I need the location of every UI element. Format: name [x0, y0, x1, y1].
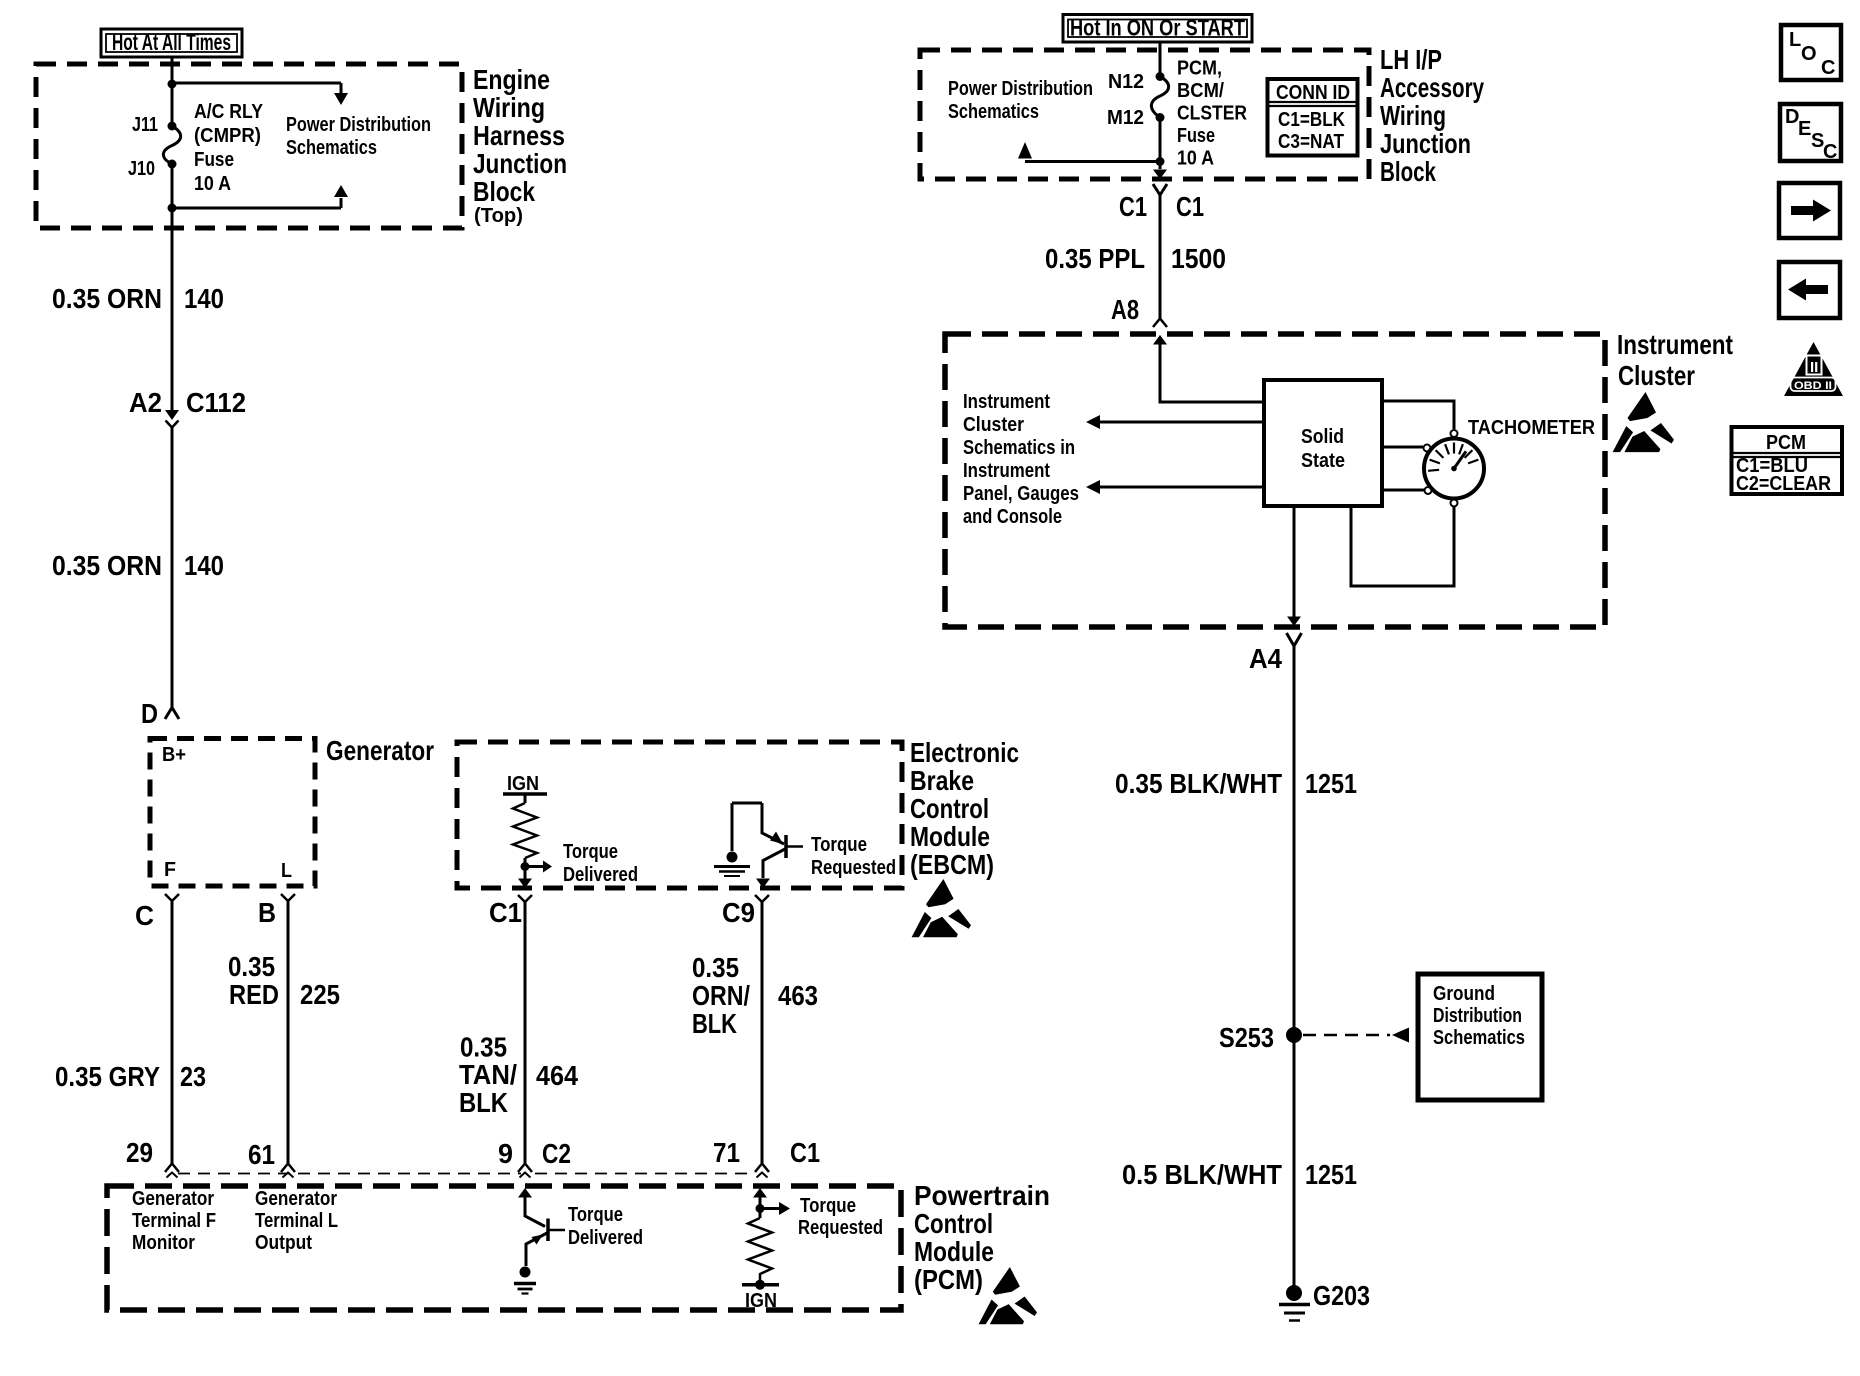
svg-text:Schematics: Schematics	[286, 137, 377, 159]
svg-text:Schematics in: Schematics in	[963, 437, 1075, 459]
svg-text:1251: 1251	[1305, 1159, 1357, 1190]
nav icon DESC box	[1780, 104, 1841, 161]
svg-text:Terminal F: Terminal F	[132, 1210, 216, 1232]
svg-text:(CMPR): (CMPR)	[194, 125, 261, 147]
svg-text:0.35 BLK/WHT: 0.35 BLK/WHT	[1115, 768, 1282, 799]
node: torque delivered junction	[521, 862, 530, 871]
wire: solid state output to A4	[1293, 506, 1296, 617]
svg-text:Block: Block	[1380, 156, 1436, 187]
wire: solid state to tachometer lower-left	[1382, 489, 1424, 492]
svg-text:IGN: IGN	[745, 1290, 777, 1312]
svg-text:A2: A2	[129, 387, 162, 418]
wire: A4 to S253 (0.35 BLK/WHT 1251)	[1293, 646, 1296, 1028]
svg-text:Output: Output	[255, 1232, 312, 1254]
svg-text:Terminal L: Terminal L	[255, 1210, 338, 1232]
LH I/P Accessory Wiring Junction Block dashed box	[920, 50, 1369, 179]
tachometer gauge M1	[1424, 439, 1484, 499]
svg-text:Generator: Generator	[255, 1188, 337, 1210]
svg-text:Control: Control	[910, 793, 989, 824]
svg-text:C3=NAT: C3=NAT	[1278, 131, 1344, 153]
resistor R2 (PCM torque requested)	[753, 1188, 767, 1198]
wire: solid state to tachometer top	[1382, 401, 1454, 429]
svg-text:D: D	[141, 698, 158, 729]
svg-text:71: 71	[713, 1137, 740, 1168]
svg-text:Ground: Ground	[1433, 983, 1495, 1005]
terminal 61 connector at PCM	[281, 1164, 295, 1173]
connector A4 below cluster	[1287, 633, 1302, 646]
svg-text:Module: Module	[914, 1236, 994, 1267]
svg-text:Junction: Junction	[1380, 128, 1471, 159]
svg-text:Torque: Torque	[568, 1204, 623, 1226]
svg-text:C1=BLK: C1=BLK	[1278, 109, 1345, 131]
solid state box U1	[1264, 380, 1382, 506]
nav icon right arrow box	[1779, 183, 1840, 238]
arrow: to instrument cluster schematics (lower)	[1099, 486, 1264, 489]
svg-text:E: E	[1798, 118, 1811, 140]
svg-text:Cluster: Cluster	[963, 414, 1024, 436]
svg-text:0.35 PPL: 0.35 PPL	[1045, 243, 1145, 274]
fuse PCM/BCM/CLSTER 10A element	[1151, 77, 1168, 118]
label box "Hot In ON Or START"	[1063, 15, 1252, 43]
svg-text:Wiring: Wiring	[1380, 100, 1446, 131]
svg-text:Solid: Solid	[1301, 426, 1344, 448]
wire: ignition feed into LH junction block	[1159, 42, 1162, 76]
svg-text:Instrument: Instrument	[963, 460, 1050, 482]
connector C1 at EBCM	[518, 895, 532, 902]
svg-text:29: 29	[126, 1137, 153, 1168]
svg-text:Torque: Torque	[811, 834, 867, 856]
svg-text:Power Distribution: Power Distribution	[286, 114, 431, 136]
svg-text:Requested: Requested	[798, 1217, 883, 1239]
generator dashed box	[150, 739, 315, 887]
svg-text:463: 463	[778, 980, 818, 1011]
PCM dashed box	[107, 1186, 901, 1310]
connector B at generator L	[281, 894, 295, 901]
svg-text:Generator: Generator	[326, 735, 434, 766]
ground (EBCM)	[714, 865, 750, 868]
OBD II triangle icon	[1784, 342, 1843, 396]
svg-text:140: 140	[184, 283, 224, 314]
connector C1 C1 inline below LH block	[1153, 170, 1167, 180]
svg-text:PCM: PCM	[1766, 432, 1806, 454]
pin circle tach top	[1451, 430, 1458, 437]
svg-text:Brake: Brake	[910, 765, 974, 796]
node J11	[168, 122, 177, 131]
label box "Hot At All Times"	[101, 29, 242, 57]
svg-text:0.35: 0.35	[460, 1032, 507, 1063]
svg-text:Wiring: Wiring	[473, 92, 545, 123]
svg-text:Cluster: Cluster	[1618, 360, 1695, 391]
svg-text:Schematics: Schematics	[948, 101, 1039, 123]
svg-text:CLSTER: CLSTER	[1177, 103, 1247, 125]
svg-text:B: B	[258, 897, 276, 928]
svg-text:Delivered: Delivered	[563, 864, 638, 886]
svg-text:Powertrain: Powertrain	[914, 1180, 1050, 1211]
svg-text:C1: C1	[489, 897, 522, 928]
svg-text:BLK: BLK	[692, 1008, 737, 1039]
node: junction dot top branch	[168, 80, 177, 89]
svg-text:140: 140	[184, 550, 224, 581]
connector C at generator F	[165, 894, 179, 901]
svg-text:0.35 ORN: 0.35 ORN	[52, 550, 162, 581]
svg-text:Harness: Harness	[473, 120, 565, 151]
wire: S253 to G203 (0.5 BLK/WHT 1251)	[1293, 1042, 1296, 1286]
svg-text:(PCM): (PCM)	[914, 1264, 983, 1295]
wire: branch to Power Distribution Schematics (left arrow)	[1025, 160, 1160, 163]
wire: branch to Power Distribution Schematics (top arrow)	[172, 83, 341, 93]
ESD symbol (instrument cluster)	[1613, 392, 1674, 452]
svg-text:C1: C1	[1119, 191, 1147, 222]
svg-text:TACHOMETER: TACHOMETER	[1468, 417, 1596, 439]
svg-text:10 A: 10 A	[1177, 148, 1214, 170]
svg-text:A8: A8	[1111, 294, 1139, 325]
svg-text:Torque: Torque	[563, 841, 618, 863]
needle	[1454, 451, 1466, 468]
svg-text:Engine: Engine	[473, 64, 550, 95]
svg-text:C9: C9	[722, 897, 755, 928]
connector C112 (A2) inline	[165, 410, 179, 420]
svg-text:RED: RED	[229, 979, 279, 1010]
terminal 9 C2 connector at PCM	[518, 1164, 532, 1173]
PCM connector ID table	[1732, 427, 1843, 494]
nav icon LOC box	[1781, 25, 1841, 80]
svg-text:B+: B+	[162, 744, 186, 766]
dashed reference wire to ground distribution	[1303, 1034, 1390, 1037]
svg-text:225: 225	[300, 979, 340, 1010]
svg-text:BLK: BLK	[459, 1087, 508, 1118]
svg-text:Torque: Torque	[800, 1195, 856, 1217]
Instrument Cluster dashed box	[945, 334, 1605, 627]
transistor Q2 (PCM torque delivered)	[518, 1188, 532, 1198]
svg-text:Hot At All Times: Hot At All Times	[112, 29, 231, 55]
svg-text:G203: G203	[1313, 1280, 1370, 1311]
wire: solid state to tachometer left	[1382, 446, 1423, 449]
wire below resistor	[524, 858, 527, 879]
svg-text:464: 464	[536, 1060, 578, 1091]
svg-text:LH I/P: LH I/P	[1380, 44, 1442, 75]
wire: EBCM C9 to PCM 71 (0.35 ORN/BLK 463)	[761, 902, 764, 1163]
svg-text:Fuse: Fuse	[194, 149, 234, 171]
wire: fuse output to C1	[1159, 118, 1162, 170]
wire: fuse output down through box	[171, 164, 174, 411]
svg-text:Hot In ON Or START: Hot In ON Or START	[1070, 15, 1245, 41]
pin circle tach bottom	[1451, 500, 1458, 507]
svg-text:Distribution: Distribution	[1433, 1005, 1522, 1027]
svg-text:1251: 1251	[1305, 768, 1357, 799]
svg-text:Accessory: Accessory	[1380, 72, 1484, 103]
wire: generator L to PCM 61 (0.35 RED 225)	[287, 901, 290, 1163]
svg-text:C: C	[1823, 141, 1837, 163]
wire: generator F to PCM 29 (0.35 GRY 23)	[171, 901, 174, 1163]
svg-text:F: F	[164, 859, 176, 881]
EBCM dashed box	[457, 742, 902, 888]
svg-text:C: C	[135, 900, 154, 931]
svg-text:9: 9	[498, 1138, 513, 1169]
transistor Q1 (EBCM torque requested)	[732, 803, 762, 851]
fuse A/C RLY (CMPR) 10A element	[163, 126, 180, 164]
ESD symbol (PCM)	[979, 1267, 1037, 1324]
svg-text:Delivered: Delivered	[568, 1227, 643, 1249]
svg-text:C2: C2	[542, 1138, 571, 1169]
svg-text:23: 23	[180, 1061, 206, 1092]
svg-text:0.35: 0.35	[692, 952, 739, 983]
svg-text:O: O	[1801, 43, 1817, 65]
connector strip dashed line (PCM C2/C1)	[178, 1173, 755, 1175]
svg-text:ORN/: ORN/	[692, 980, 750, 1011]
Ground Distribution Schematics box	[1418, 974, 1542, 1100]
svg-text:A/C RLY: A/C RLY	[194, 101, 264, 123]
pin circle tach lower-left	[1425, 487, 1432, 494]
svg-text:BCM/: BCM/	[1177, 80, 1224, 102]
svg-text:S253: S253	[1219, 1022, 1274, 1053]
svg-text:Monitor: Monitor	[132, 1232, 195, 1254]
arrow: to instrument cluster schematics (upper)	[1099, 421, 1264, 424]
pin circle tach left upper	[1424, 445, 1431, 452]
resistor R1 (EBCM pull-up)	[513, 803, 537, 858]
wire: C1 to A8 (0.35 PPL 1500)	[1159, 195, 1162, 319]
svg-text:IGN: IGN	[507, 773, 539, 795]
splice S253	[1286, 1027, 1302, 1043]
svg-text:A4: A4	[1249, 643, 1282, 674]
nav icon left arrow box	[1779, 262, 1840, 318]
Engine Wiring Harness Junction Block dashed box	[36, 64, 462, 228]
svg-text:N12: N12	[1108, 71, 1144, 93]
svg-text:Instrument: Instrument	[1617, 329, 1733, 360]
wire: branch to Power Distribution Schematics (bottom arrow)	[172, 198, 341, 208]
node: junction dot bottom branch	[168, 204, 177, 213]
svg-text:CONN ID: CONN ID	[1276, 82, 1350, 104]
svg-text:TAN/: TAN/	[459, 1059, 517, 1090]
svg-text:OBD II: OBD II	[1794, 380, 1832, 392]
svg-text:Fuse: Fuse	[1177, 125, 1215, 147]
svg-text:10 A: 10 A	[194, 173, 231, 195]
svg-text:Control: Control	[914, 1208, 993, 1239]
svg-text:Electronic: Electronic	[910, 737, 1019, 768]
svg-text:0.35 ORN: 0.35 ORN	[52, 283, 162, 314]
node M12	[1156, 113, 1165, 122]
terminal 71 C1 connector at PCM	[755, 1164, 769, 1173]
svg-text:Junction: Junction	[473, 148, 567, 179]
svg-text:L: L	[281, 860, 292, 882]
svg-text:Module: Module	[910, 821, 990, 852]
ground (PCM Q2)	[514, 1282, 536, 1286]
svg-text:(EBCM): (EBCM)	[910, 849, 994, 880]
svg-text:L: L	[1789, 29, 1801, 51]
svg-text:Panel, Gauges: Panel, Gauges	[963, 483, 1079, 505]
svg-text:Instrument: Instrument	[963, 391, 1050, 413]
IGN supply (PCM)	[742, 1283, 779, 1287]
svg-text:J10: J10	[128, 158, 155, 180]
svg-text:C: C	[1821, 57, 1835, 79]
wire: battery feed into junction block	[171, 57, 174, 126]
svg-text:C2=CLEAR: C2=CLEAR	[1736, 473, 1831, 495]
svg-text:PCM,: PCM,	[1177, 58, 1222, 80]
svg-text:M12: M12	[1107, 107, 1144, 129]
CONN ID table	[1268, 79, 1358, 156]
svg-text:0.35: 0.35	[228, 951, 275, 982]
svg-text:0.35 GRY: 0.35 GRY	[55, 1061, 160, 1092]
svg-text:Power Distribution: Power Distribution	[948, 78, 1093, 100]
svg-text:61: 61	[248, 1139, 275, 1170]
connector C9 at EBCM	[755, 895, 769, 902]
svg-text:II: II	[1810, 359, 1818, 376]
connector A8 at instrument cluster	[1153, 319, 1167, 328]
svg-text:C1: C1	[790, 1137, 820, 1168]
ground G203	[1286, 1285, 1302, 1301]
svg-text:0.5 BLK/WHT: 0.5 BLK/WHT	[1122, 1159, 1282, 1190]
svg-text:(Top): (Top)	[474, 205, 523, 227]
svg-text:and Console: and Console	[963, 506, 1062, 528]
svg-text:C1: C1	[1176, 191, 1204, 222]
svg-text:J11: J11	[132, 114, 158, 136]
connector D at generator B+	[165, 708, 179, 720]
svg-text:Generator: Generator	[132, 1188, 214, 1210]
wire: A8 into solid state	[1153, 335, 1167, 345]
ESD symbol (EBCM)	[912, 879, 971, 937]
node: branch junction	[1156, 157, 1165, 166]
wire: EBCM C1 to PCM 9 (0.35 TAN/BLK 464)	[524, 902, 527, 1163]
svg-text:C112: C112	[186, 387, 246, 418]
svg-text:State: State	[1301, 450, 1345, 472]
svg-text:1500: 1500	[1171, 243, 1226, 274]
wire: tachometer return loop	[1351, 507, 1454, 587]
svg-text:Block: Block	[473, 176, 535, 207]
svg-text:Requested: Requested	[811, 857, 896, 879]
wire: C112 to generator B+	[171, 428, 174, 708]
node J10	[168, 160, 177, 169]
terminal 29 connector at PCM	[165, 1164, 179, 1173]
svg-text:Schematics: Schematics	[1433, 1027, 1525, 1049]
node N12	[1156, 72, 1165, 81]
